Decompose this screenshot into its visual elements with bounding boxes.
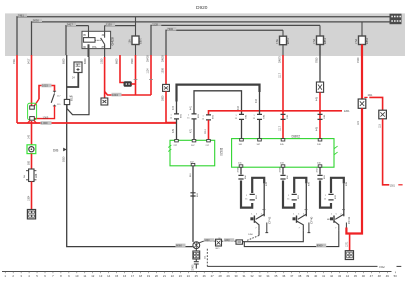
svg-text:140: 140	[27, 134, 30, 139]
svg-text:447: 447	[172, 105, 175, 110]
D802 pin 341	[240, 139, 244, 141]
dashed drop from splice area	[206, 249, 208, 267]
svg-text:1: 1	[236, 115, 237, 117]
wire from D520 pin 207 to ground splice	[192, 166, 194, 242]
svg-text:CF42: CF42	[268, 216, 272, 224]
bus wire 5030	[32, 22, 391, 55]
svg-text:1117: 1117	[279, 72, 282, 78]
label 7300	[167, 27, 177, 30]
svg-text:25: 25	[195, 274, 199, 278]
svg-text:115: 115	[357, 121, 360, 125]
output driver group CF41	[317, 167, 352, 231]
svg-text:12: 12	[91, 274, 95, 278]
svg-text:29: 29	[227, 274, 231, 278]
wire 7600 below fuse E807	[135, 55, 137, 95]
wire 7461 red drop	[16, 55, 18, 123]
svg-text:D802: D802	[292, 134, 301, 138]
svg-text:1440: 1440	[224, 240, 230, 242]
svg-text:19: 19	[147, 274, 151, 278]
control module D520	[170, 140, 215, 166]
svg-text:445: 445	[316, 126, 319, 131]
ground splice	[193, 242, 200, 249]
relay actuator dashed link	[95, 39, 101, 41]
svg-text:43: 43	[338, 274, 342, 278]
left chain wire 1040	[31, 121, 33, 145]
svg-text:15A2: 15A2	[379, 266, 385, 269]
red tap to lamp connector	[349, 234, 351, 251]
output driver group CF42	[238, 167, 272, 241]
svg-text:26: 26	[203, 274, 207, 278]
svg-text:1: 1	[254, 115, 255, 117]
svg-text:8060: 8060	[176, 244, 182, 248]
long red feed 7430 from fuse E852	[361, 45, 363, 100]
svg-text:G428: G428	[111, 37, 115, 45]
svg-text:17: 17	[131, 274, 135, 278]
svg-text:18: 18	[139, 274, 143, 278]
D802 pin 249	[318, 139, 322, 141]
ground bolt box 24	[74, 62, 82, 73]
svg-text:49: 49	[386, 274, 390, 278]
bus wire 7300	[166, 30, 283, 55]
end connector block	[27, 210, 35, 219]
label 5030	[33, 19, 43, 22]
svg-text:37: 37	[290, 274, 294, 278]
svg-text:6015: 6015	[71, 95, 74, 101]
svg-text:472B: 472B	[238, 167, 240, 173]
svg-text:1130: 1130	[106, 23, 112, 27]
svg-text:1015: 1015	[42, 84, 48, 88]
fuse E807	[135, 17, 137, 36]
chain wire	[31, 154, 33, 169]
lamp connector block	[345, 251, 353, 260]
control module D802	[232, 139, 334, 168]
svg-text:8500: 8500	[62, 58, 65, 64]
fuse box / central electronic unit grey band	[5, 13, 405, 56]
svg-text:1: 1	[203, 115, 204, 117]
ground link to CF40	[243, 231, 304, 242]
svg-text:20: 20	[155, 274, 159, 278]
ground rail to off page 15A2	[207, 265, 377, 267]
transistor CF41	[335, 214, 344, 219]
label 5417	[67, 23, 77, 26]
svg-text:7430: 7430	[357, 57, 360, 63]
svg-text:1: 1	[188, 114, 189, 116]
inline fuse in chain	[29, 169, 34, 182]
switch lever	[51, 93, 54, 102]
svg-text:7.5A: 7.5A	[276, 39, 279, 44]
svg-text:31: 31	[242, 274, 246, 278]
switch contact bottom	[53, 105, 56, 106]
D520 pin 227	[175, 140, 179, 142]
svg-text:15: 15	[324, 199, 326, 201]
D520 pin 207 bottom	[191, 163, 195, 165]
wire 29600 drop with connector	[165, 55, 167, 84]
svg-text:7.5A: 7.5A	[355, 38, 358, 43]
D802 pin 240 bottom	[318, 165, 322, 167]
connector block top right	[390, 14, 402, 25]
red feed rail 1034	[105, 92, 151, 96]
svg-text:B/O: B/O	[216, 248, 220, 250]
svg-text:8060: 8060	[317, 244, 323, 248]
svg-text:15: 15	[170, 118, 172, 120]
svg-text:471: 471	[190, 128, 193, 133]
svg-text:14: 14	[107, 274, 111, 278]
svg-text:30: 30	[234, 274, 238, 278]
svg-text:87B: 87B	[266, 182, 268, 186]
connector bars pin1	[174, 114, 179, 119]
svg-text:7600: 7600	[131, 58, 134, 64]
wire 6600 drop	[120, 55, 124, 83]
connector pin bottom	[30, 117, 35, 121]
D802 break marks	[334, 146, 337, 154]
emitter drop to dashed link	[258, 231, 260, 236]
D802 pin 345	[281, 139, 285, 141]
connector bars	[238, 175, 243, 179]
svg-text:B7B: B7B	[335, 194, 337, 199]
svg-text:1124: 1124	[147, 68, 150, 74]
svg-text:32: 32	[250, 274, 254, 278]
fuse E853	[319, 25, 321, 36]
connector on 1030 wire	[101, 98, 108, 105]
svg-text:1201: 1201	[344, 109, 350, 113]
svg-text:23: 23	[179, 274, 183, 278]
svg-text:115: 115	[378, 124, 381, 128]
svg-text:46: 46	[362, 274, 366, 278]
svg-text:472B: 472B	[280, 167, 282, 173]
svg-text:22: 22	[171, 274, 175, 278]
thick interconnect bus upper	[177, 85, 260, 102]
svg-text:7300: 7300	[167, 27, 173, 31]
svg-text:33: 33	[258, 274, 262, 278]
svg-text:16: 16	[123, 274, 127, 278]
pin junction diagonals	[27, 120, 37, 123]
small link box	[236, 240, 243, 244]
svg-text:15: 15	[202, 119, 204, 121]
svg-text:1365: 1365	[43, 116, 49, 120]
wire into D802 pin 347	[259, 92, 261, 114]
splice down chain connector	[195, 249, 197, 251]
svg-text:13: 13	[99, 274, 103, 278]
coordinate ruler	[2, 271, 392, 273]
svg-text:3000: 3000	[162, 95, 165, 101]
svg-text:1440: 1440	[204, 240, 210, 242]
svg-text:7461: 7461	[13, 58, 16, 64]
wire 8500 long ground wire	[67, 55, 193, 247]
svg-text:7461: 7461	[18, 13, 24, 17]
svg-text:41: 41	[322, 274, 326, 278]
svg-text:36: 36	[282, 274, 286, 278]
svg-text:7.5A: 7.5A	[313, 38, 316, 43]
red drop continues to branch rail	[166, 91, 177, 122]
junction box with X	[216, 239, 222, 246]
svg-text:444: 444	[237, 105, 240, 110]
svg-text:21: 21	[163, 274, 167, 278]
bus stub 1130	[105, 25, 136, 27]
terminal 6015 on ground wire	[64, 99, 69, 104]
svg-text:445: 445	[316, 96, 319, 101]
svg-text:E851: E851	[286, 38, 290, 45]
transistor CF42	[256, 214, 265, 219]
svg-text:45: 45	[354, 274, 358, 278]
svg-text:50: 50	[394, 274, 398, 278]
svg-text:E851: E851	[323, 37, 327, 44]
wire 5030 red drop to connector	[31, 55, 33, 106]
lamp circle	[29, 147, 34, 152]
wire into D520 pin1	[176, 102, 178, 114]
D520 break marks	[168, 145, 171, 151]
wire 8400 from relay pin 86	[67, 57, 89, 115]
wire into D802 pin 341	[239, 114, 244, 119]
svg-text:E88: E88	[35, 173, 38, 178]
wire 7930 from fuse E851 into D802	[319, 45, 321, 83]
svg-text:87A: 87A	[92, 46, 97, 49]
red jog into connector pin	[34, 99, 39, 106]
relay pin 30 wire from 1130	[104, 26, 106, 38]
transistor CF40	[298, 214, 307, 219]
dashed link right	[222, 240, 237, 242]
svg-text:47: 47	[370, 274, 374, 278]
wire 4717 from D802 pin 240	[319, 167, 321, 174]
D520 pin 217	[207, 140, 211, 142]
thick bridge link	[252, 178, 264, 193]
svg-text:D/B: D/B	[53, 149, 58, 153]
svg-text:11: 11	[83, 274, 86, 278]
svg-text:441: 441	[190, 105, 193, 110]
svg-text:42: 42	[330, 274, 334, 278]
svg-text:39: 39	[306, 274, 310, 278]
svg-text:24: 24	[187, 274, 191, 278]
wire from D802 pin 243	[282, 167, 284, 174]
svg-text:5417: 5417	[67, 23, 73, 27]
label 1130	[106, 23, 116, 26]
inline connector on 7430	[358, 99, 366, 108]
svg-text:10: 10	[75, 274, 79, 278]
svg-text:38: 38	[298, 274, 302, 278]
chain wire 1004	[31, 182, 33, 210]
svg-text:15: 15	[253, 118, 255, 120]
inline connector on 29600	[163, 84, 170, 91]
svg-text:15: 15	[115, 274, 119, 278]
svg-text:E807: E807	[139, 37, 143, 44]
svg-text:1: 1	[325, 195, 326, 197]
svg-text:1271: 1271	[345, 241, 348, 247]
svg-text:1: 1	[171, 114, 172, 116]
relay contact lever	[101, 38, 105, 44]
bus wire 7461	[17, 17, 390, 55]
svg-text:34: 34	[266, 274, 270, 278]
svg-text:1000: 1000	[162, 68, 165, 74]
relay pin 87 stub	[104, 44, 106, 57]
svg-text:CF40: CF40	[310, 216, 314, 224]
inline connector on 7930	[316, 82, 323, 92]
output driver group CF40	[280, 167, 314, 233]
svg-text:500: 500	[27, 160, 30, 165]
fuse E852	[361, 22, 363, 36]
label 1034	[112, 93, 122, 97]
connector bars mid	[250, 194, 255, 200]
wire 5530 from fuse E851 into D802	[282, 55, 284, 139]
svg-text:B7B: B7B	[346, 181, 348, 186]
red from switch to connector bottom pin	[35, 106, 55, 119]
svg-text:1450: 1450	[248, 234, 254, 236]
ground link to CF41	[244, 231, 338, 247]
red bus 1201	[209, 111, 343, 115]
thick U link	[241, 181, 252, 208]
thin interconnect bus	[194, 91, 242, 114]
label 8060 on CF41 link	[316, 244, 326, 248]
inline connector 2-pin	[124, 82, 131, 87]
lamp component green highlight	[27, 145, 36, 154]
svg-text:5417: 5417	[27, 58, 30, 64]
fuse E851	[282, 30, 284, 36]
svg-text:15: 15	[287, 199, 289, 201]
connector pin top	[30, 106, 35, 109]
dashed link from splice to junction box	[199, 241, 203, 243]
main red rail 1000	[17, 122, 177, 124]
svg-text:1034: 1034	[112, 93, 118, 97]
label 8060	[176, 244, 186, 248]
wire 87B to transistor	[263, 183, 265, 216]
label 7461	[18, 14, 28, 17]
svg-text:28: 28	[219, 274, 223, 278]
svg-text:29670: 29670	[279, 56, 282, 63]
inline connector on 1011 feed	[379, 110, 387, 119]
svg-text:1: 1	[288, 195, 289, 197]
svg-text:27: 27	[211, 274, 215, 278]
svg-text:1: 1	[246, 195, 247, 197]
svg-text:D920: D920	[196, 5, 208, 11]
svg-text:15: 15	[245, 199, 247, 201]
relay coil	[84, 38, 96, 43]
svg-text:29600: 29600	[162, 55, 165, 62]
label 1128	[152, 22, 162, 25]
svg-text:6600: 6600	[116, 58, 119, 64]
svg-text:5030: 5030	[33, 19, 39, 23]
wire from D802 pin 241	[240, 167, 242, 174]
svg-text:1030: 1030	[100, 58, 103, 64]
svg-text:8400: 8400	[84, 58, 87, 64]
relay G428 body	[82, 31, 111, 48]
bus stub 5417	[66, 26, 89, 55]
svg-text:CF41: CF41	[347, 216, 351, 224]
svg-text:4717: 4717	[317, 167, 319, 173]
D802 pin 241 bottom	[239, 165, 243, 167]
switch S contact top	[53, 91, 56, 92]
relay pin 86 stub	[88, 44, 90, 57]
svg-text:35: 35	[274, 274, 278, 278]
svg-text:444: 444	[255, 98, 258, 103]
svg-text:44: 44	[346, 274, 350, 278]
door connector green shell	[28, 103, 37, 120]
svg-text:40: 40	[314, 274, 318, 278]
link connector to fuse wire	[131, 83, 135, 85]
svg-text:D960: D960	[192, 264, 195, 271]
svg-text:28400: 28400	[147, 55, 150, 62]
D520 pin 267	[192, 140, 196, 142]
wire 1030 from relay pin 87	[104, 57, 106, 98]
below band wire labels	[13, 55, 165, 101]
svg-text:15: 15	[235, 118, 237, 120]
D802 pin 347	[258, 139, 262, 141]
wire 28400 red drop	[150, 55, 152, 95]
svg-text:15A: 15A	[129, 39, 132, 44]
bus wire 1128	[151, 25, 320, 55]
ground bolt stub to ground wire	[67, 73, 79, 88]
svg-text:E852: E852	[365, 37, 369, 44]
svg-text:1501: 1501	[390, 186, 396, 188]
svg-text:48: 48	[378, 274, 382, 278]
svg-text:1004: 1004	[27, 195, 30, 201]
svg-text:5030: 5030	[63, 156, 66, 162]
left switch red loop 1015	[39, 86, 55, 100]
svg-text:1117: 1117	[279, 125, 282, 131]
svg-text:1128: 1128	[152, 22, 158, 26]
D802 pin 243 bottom	[281, 165, 285, 167]
svg-text:1111: 1111	[204, 129, 207, 134]
svg-text:87B: 87B	[308, 182, 310, 186]
svg-text:7930: 7930	[316, 57, 319, 63]
svg-text:15: 15	[187, 118, 189, 120]
relay pin 85 wire from 5417	[88, 26, 90, 38]
label 1000	[41, 121, 52, 125]
connector bars on 207 wire	[190, 193, 195, 196]
wire into D520 pin3 red	[206, 115, 211, 120]
svg-text:1 000: 1 000	[41, 121, 48, 125]
svg-text:D520: D520	[219, 148, 223, 156]
svg-text:476: 476	[172, 128, 175, 133]
